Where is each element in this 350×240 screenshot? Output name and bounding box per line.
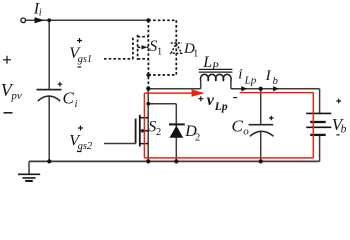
svg-text:1: 1 (157, 47, 162, 58)
svg-text:2: 2 (156, 127, 161, 138)
svg-text:C: C (232, 116, 244, 135)
svg-text:pv: pv (10, 90, 22, 102)
svg-text:v: v (207, 92, 215, 109)
svg-text:2: 2 (195, 133, 200, 144)
svg-text:Lp: Lp (214, 101, 228, 113)
svg-text:i: i (238, 66, 242, 82)
svg-text:o: o (243, 126, 249, 138)
svg-text:i: i (39, 8, 42, 19)
svg-text:b: b (273, 76, 278, 87)
svg-text:Lp: Lp (244, 74, 257, 86)
svg-text:I: I (265, 68, 272, 84)
svg-text:i: i (75, 98, 78, 110)
svg-text:gs1: gs1 (78, 54, 93, 65)
svg-text:L: L (202, 54, 212, 71)
svg-text:P: P (211, 61, 219, 73)
svg-text:1: 1 (193, 48, 198, 59)
svg-text:b: b (341, 123, 347, 135)
svg-text:gs2: gs2 (78, 141, 93, 152)
svg-text:C: C (63, 89, 75, 108)
